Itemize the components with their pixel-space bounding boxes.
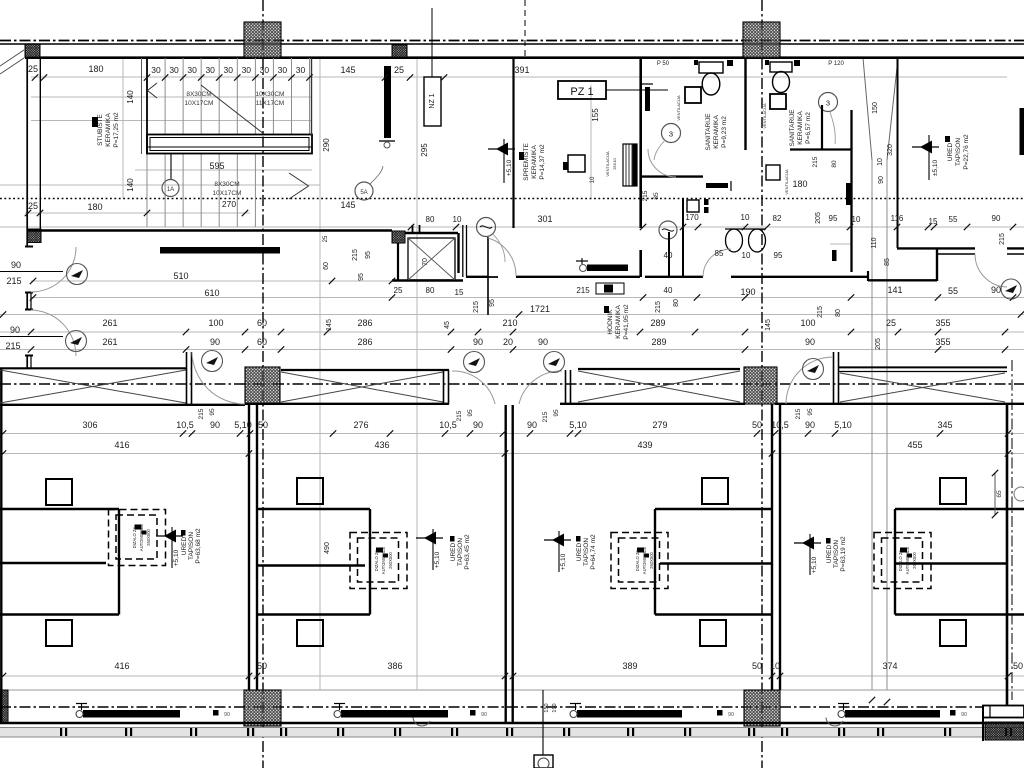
room label unit3 <box>576 536 581 542</box>
svg-text:50: 50 <box>257 661 267 671</box>
svg-text:90: 90 <box>805 420 815 430</box>
svg-text:180: 180 <box>87 202 102 212</box>
window band 2 <box>281 369 449 371</box>
svg-text:301: 301 <box>537 214 552 224</box>
svg-text:215: 215 <box>817 306 824 318</box>
svg-text:150: 150 <box>544 703 550 712</box>
car platform unit1 <box>109 510 166 566</box>
svg-text:90: 90 <box>473 420 483 430</box>
wc1 wall vent marks <box>727 60 733 66</box>
right edge radiator <box>1020 108 1024 155</box>
svg-text:AUTOMOBILE: AUTOMOBILE <box>642 547 647 575</box>
svg-text:374: 374 <box>882 661 897 671</box>
right vertical dim <box>994 473 996 515</box>
wc2 marker 3 <box>819 93 838 112</box>
svg-text:215: 215 <box>812 156 819 167</box>
stair dims <box>126 90 600 209</box>
svg-text:SANITARIJE: SANITARIJE <box>705 113 712 151</box>
dimension row top <box>28 61 844 75</box>
top right wall x898 <box>897 58 899 248</box>
svg-text:90: 90 <box>538 337 548 347</box>
right wall stubs <box>1007 508 1024 510</box>
svg-text:10X17CM: 10X17CM <box>185 100 214 107</box>
bottom section marker <box>542 690 544 755</box>
svg-text:215: 215 <box>576 286 590 295</box>
svg-text:80: 80 <box>835 309 842 317</box>
svg-text:286: 286 <box>357 318 372 328</box>
bottom window unit2 <box>341 710 448 718</box>
svg-text:95: 95 <box>774 251 783 260</box>
svg-text:276: 276 <box>353 420 368 430</box>
svg-text:205: 205 <box>875 338 882 350</box>
svg-text:P=63,19 m2: P=63,19 m2 <box>840 536 847 572</box>
svg-text:386: 386 <box>387 661 402 671</box>
stair side wall right <box>311 58 313 135</box>
bottom door mark unit3 <box>717 710 723 716</box>
stairs boundary <box>146 58 148 154</box>
svg-text:95: 95 <box>553 409 560 417</box>
wc3 door arc <box>703 249 731 277</box>
desk 7 <box>700 620 726 646</box>
column top A <box>244 22 281 58</box>
corridor top wall <box>27 229 392 232</box>
stairs direction lines <box>148 83 158 98</box>
svg-text:90: 90 <box>473 337 483 347</box>
svg-text:145: 145 <box>340 65 355 75</box>
corridor east walls <box>867 271 869 281</box>
corridor east door marker 4 <box>1001 279 1021 299</box>
column small elevator <box>392 231 405 243</box>
wc3 door leaf <box>668 232 670 277</box>
svg-text:50: 50 <box>752 661 762 671</box>
dim row 322 <box>102 318 950 328</box>
svg-text:10: 10 <box>770 661 780 671</box>
column small left-mid <box>27 229 41 243</box>
stairs landing bar <box>147 135 312 154</box>
dimension ticks <box>0 74 1024 679</box>
svg-text:215: 215 <box>542 411 549 422</box>
svg-text:145: 145 <box>765 319 772 331</box>
corner leader top-left <box>0 50 24 74</box>
wc2 sink <box>770 94 786 109</box>
stairs treads upper <box>147 58 310 227</box>
svg-text:90: 90 <box>527 420 537 430</box>
NZ 1 riser line <box>431 8 433 77</box>
svg-text:40: 40 <box>664 251 673 260</box>
svg-text:30: 30 <box>205 65 215 75</box>
svg-text:289: 289 <box>651 337 666 347</box>
svg-text:+5,10: +5,10 <box>173 549 180 566</box>
svg-text:5A: 5A <box>360 190 367 196</box>
svg-text:261: 261 <box>102 337 117 347</box>
bottom window unit1 <box>83 710 180 718</box>
svg-text:439: 439 <box>637 440 652 450</box>
dimension row 205 <box>28 200 1006 245</box>
svg-text:25: 25 <box>394 286 403 295</box>
svg-text:180: 180 <box>88 64 103 74</box>
wc3 toilet pair <box>726 229 743 252</box>
wall x640 <box>639 58 642 228</box>
svg-text:50: 50 <box>258 420 268 430</box>
svg-text:55: 55 <box>949 215 958 224</box>
stair side line left <box>141 58 143 154</box>
svg-text:AUTOMOBILE: AUTOMOBILE <box>139 524 144 552</box>
svg-text:45: 45 <box>444 321 451 329</box>
svg-text:95: 95 <box>467 409 474 417</box>
svg-text:URED: URED <box>181 536 188 555</box>
bottom exterior wall line <box>0 722 1024 725</box>
black riser bar <box>384 66 391 138</box>
svg-text:391: 391 <box>514 65 529 75</box>
svg-text:90: 90 <box>992 214 1001 223</box>
svg-text:145: 145 <box>340 200 355 210</box>
svg-text:289: 289 <box>650 318 665 328</box>
laundry box <box>766 165 780 180</box>
svg-text:P=64,74 m2: P=64,74 m2 <box>590 534 597 570</box>
corridor door leaf <box>487 237 489 315</box>
svg-text:DIZALO ZA: DIZALO ZA <box>132 526 137 548</box>
svg-text:30: 30 <box>169 65 179 75</box>
svg-text:SPREMIŠTE: SPREMIŠTE <box>521 143 530 181</box>
axis line bottom horizontal <box>0 706 1024 708</box>
room label unit2 <box>450 536 455 542</box>
svg-text:P=14,37 m2: P=14,37 m2 <box>539 144 546 180</box>
elevator entry ticks <box>412 225 414 233</box>
svg-text:110: 110 <box>871 237 878 248</box>
svg-text:389: 389 <box>622 661 637 671</box>
svg-text:P=41,95 m2: P=41,95 m2 <box>623 304 630 340</box>
double doors middle <box>452 371 495 404</box>
bottom right ramp <box>983 706 1024 718</box>
spremiste level flag <box>496 143 508 156</box>
svg-text:290: 290 <box>322 138 331 152</box>
svg-text:260X500: 260X500 <box>146 528 151 545</box>
axis line middle horizontal <box>0 383 1024 385</box>
svg-text:AUTOMOBILE: AUTOMOBILE <box>381 547 386 575</box>
vestibule unit4 <box>895 508 1007 510</box>
svg-text:25X10: 25X10 <box>612 157 617 169</box>
wall x513 <box>512 58 514 228</box>
svg-text:170: 170 <box>685 213 699 222</box>
stubiste label <box>92 117 98 127</box>
bottom window unit3 <box>577 710 682 718</box>
corridor radiator bar short <box>587 265 628 272</box>
vestibule unit2 <box>258 508 370 510</box>
svg-text:TAPISON: TAPISON <box>188 532 195 560</box>
svg-text:25: 25 <box>394 65 404 75</box>
bottom door mark unit1 <box>213 710 219 716</box>
svg-text:TAPISON: TAPISON <box>583 538 590 566</box>
svg-text:610: 610 <box>204 288 219 298</box>
svg-text:90: 90 <box>805 337 815 347</box>
wc1 marker 3 <box>662 124 681 143</box>
wc3 wall west <box>682 198 684 277</box>
elevator car <box>408 238 455 280</box>
stair marker circle 1A <box>170 154 172 180</box>
svg-text:50: 50 <box>752 420 762 430</box>
desk 3 <box>702 478 728 504</box>
car platform unit4 <box>874 533 931 589</box>
window sill arc unit4 <box>826 718 843 726</box>
svg-text:70: 70 <box>422 258 429 266</box>
axis line top horizontal <box>0 40 1024 42</box>
svg-text:URED: URED <box>450 542 457 561</box>
svg-text:595: 595 <box>209 161 224 171</box>
left door arc 1 <box>31 247 76 292</box>
PZ 1 leader <box>606 89 668 91</box>
wc3 south wall segments <box>645 276 703 278</box>
svg-text:1A: 1A <box>167 187 174 193</box>
flue shaft lines <box>863 58 898 705</box>
svg-text:P=22,76 m2: P=22,76 m2 <box>963 134 970 170</box>
stair marker circle 5A <box>355 182 373 200</box>
desk 4 <box>940 478 966 504</box>
svg-text:+5,10: +5,10 <box>506 159 513 176</box>
svg-text:25: 25 <box>886 318 896 328</box>
svg-text:155: 155 <box>591 108 600 122</box>
svg-text:20: 20 <box>503 337 513 347</box>
svg-text:345: 345 <box>937 420 952 430</box>
corridor radiator bar long <box>160 247 280 254</box>
svg-text:416: 416 <box>114 440 129 450</box>
svg-text:1721: 1721 <box>530 304 550 314</box>
svg-text:KERAMIKA: KERAMIKA <box>797 111 804 145</box>
svg-text:455: 455 <box>907 440 922 450</box>
PZ 1 box <box>558 81 606 99</box>
svg-text:80: 80 <box>426 286 435 295</box>
svg-text:3: 3 <box>669 130 673 139</box>
svg-text:5,10: 5,10 <box>569 420 587 430</box>
wc1 toilet <box>699 62 723 73</box>
svg-text:80: 80 <box>426 215 435 224</box>
svg-text:295: 295 <box>420 143 429 157</box>
svg-text:60: 60 <box>257 318 267 328</box>
desk 1 <box>46 479 72 505</box>
svg-text:306: 306 <box>82 420 97 430</box>
window sill arc unit2 <box>413 718 430 726</box>
column small top-left <box>25 44 40 58</box>
dim row 341 <box>102 337 950 350</box>
svg-text:10X30CM: 10X30CM <box>256 91 285 98</box>
svg-text:3: 3 <box>826 99 830 108</box>
column mid A <box>245 367 280 404</box>
svg-text:140: 140 <box>126 178 135 192</box>
right exterior wall <box>1006 405 1009 707</box>
svg-text:30: 30 <box>242 65 252 75</box>
svg-text:116: 116 <box>891 214 904 223</box>
svg-text:85: 85 <box>715 249 724 258</box>
left door marker 2 <box>66 331 87 352</box>
corridor wall right of elevator <box>462 225 464 277</box>
wc1 south wall <box>640 175 703 177</box>
svg-text:VENTILACIJA: VENTILACIJA <box>784 169 789 195</box>
svg-text:30: 30 <box>296 65 306 75</box>
svg-text:60: 60 <box>323 262 330 270</box>
svg-text:80: 80 <box>831 160 838 168</box>
ured top right label <box>920 141 932 154</box>
svg-text:TAPISON: TAPISON <box>833 540 840 568</box>
window band 3 <box>578 368 740 370</box>
section cut dotted line <box>0 198 1024 200</box>
svg-text:30: 30 <box>151 65 161 75</box>
svg-text:AUTOMOBILE: AUTOMOBILE <box>905 547 910 575</box>
svg-text:260X500: 260X500 <box>388 551 393 568</box>
lower block left wall <box>0 368 2 723</box>
svg-text:8X30CM: 8X30CM <box>186 91 211 98</box>
desk 5 <box>46 620 72 646</box>
bottom door mark unit4 <box>950 710 956 716</box>
sidewalk band <box>0 728 1024 738</box>
svg-text:10: 10 <box>453 215 462 224</box>
svg-text:215: 215 <box>642 190 649 201</box>
svg-text:5,10: 5,10 <box>834 420 852 430</box>
svg-text:55: 55 <box>948 286 958 296</box>
svg-text:205: 205 <box>815 212 822 224</box>
column top B <box>743 22 780 58</box>
svg-text:TAPISON: TAPISON <box>955 138 962 166</box>
dim row 668 <box>114 661 1023 671</box>
wc2 radiator low <box>832 250 837 261</box>
svg-text:90: 90 <box>224 712 230 718</box>
wc3 marker circle <box>659 221 677 239</box>
bottom window unit4 <box>845 710 940 718</box>
sidewalk ticks <box>60 728 1012 736</box>
svg-text:85: 85 <box>653 192 660 200</box>
svg-text:510: 510 <box>173 271 188 281</box>
svg-text:VENTILACIJA: VENTILACIJA <box>676 95 681 121</box>
axis line vertical A <box>262 0 264 768</box>
svg-text:KERAMIKA: KERAMIKA <box>713 115 720 149</box>
column small top-mid <box>392 45 407 58</box>
door arc band1 <box>192 352 245 404</box>
svg-text:URED: URED <box>826 544 833 563</box>
wc1 door arc <box>648 149 676 177</box>
svg-text:140: 140 <box>126 90 135 104</box>
car platform unit3 <box>611 533 668 589</box>
svg-text:VENTILACIJA: VENTILACIJA <box>605 151 610 177</box>
svg-text:SANITARIJE: SANITARIJE <box>789 109 796 147</box>
svg-text:10: 10 <box>590 176 596 183</box>
svg-text:25: 25 <box>28 64 38 74</box>
svg-text:URED: URED <box>576 542 583 561</box>
svg-text:+5,10: +5,10 <box>811 556 818 573</box>
svg-text:40: 40 <box>664 286 673 295</box>
svg-text:210: 210 <box>502 318 517 328</box>
svg-text:215: 215 <box>795 408 802 419</box>
column bottom A <box>244 690 281 726</box>
svg-text:P 50: P 50 <box>657 61 670 67</box>
corridor east door arc <box>975 254 1007 287</box>
left door arc 2 <box>31 310 76 356</box>
svg-text:65: 65 <box>996 490 1003 498</box>
wc2 wall vent marks <box>794 60 800 66</box>
svg-text:320: 320 <box>887 144 894 156</box>
svg-text:286: 286 <box>357 337 372 347</box>
level mark unit1 <box>164 530 176 543</box>
svg-text:30: 30 <box>260 65 270 75</box>
svg-text:10,5: 10,5 <box>176 420 194 430</box>
axis line vertical center top stub <box>524 0 526 58</box>
wc2 toilet <box>770 62 792 72</box>
svg-text:355: 355 <box>935 318 950 328</box>
svg-text:85: 85 <box>884 258 891 266</box>
svg-text:95: 95 <box>365 251 372 259</box>
bottom door mark unit2 <box>470 710 476 716</box>
corridor door marker 2 <box>477 218 496 237</box>
separation wall unit3-4 <box>771 404 773 690</box>
svg-text:URED: URED <box>947 142 954 161</box>
door marker band4 <box>803 359 824 380</box>
svg-text:90: 90 <box>991 285 1001 295</box>
svg-text:10,5: 10,5 <box>771 420 789 430</box>
svg-text:8X30CM: 8X30CM <box>214 181 239 188</box>
door jambs band1 <box>186 352 188 405</box>
svg-text:5,10: 5,10 <box>234 420 252 430</box>
left wall door jambs <box>25 247 33 369</box>
window band 4 <box>838 366 1007 368</box>
svg-text:P=63,68 m2: P=63,68 m2 <box>195 528 202 564</box>
svg-text:TAPISON: TAPISON <box>457 538 464 566</box>
svg-text:215: 215 <box>198 408 205 419</box>
svg-text:10: 10 <box>877 158 884 166</box>
svg-text:60: 60 <box>257 337 267 347</box>
vestibule unit3 <box>655 508 772 510</box>
svg-text:P=17,25 m2: P=17,25 m2 <box>113 112 120 148</box>
top exterior wall <box>0 43 1024 45</box>
svg-text:90: 90 <box>728 712 734 718</box>
door arc band4 <box>786 357 833 404</box>
left door marker 1 <box>67 264 88 285</box>
svg-text:+5,10: +5,10 <box>560 553 567 570</box>
wc2 walls <box>821 105 823 149</box>
svg-text:50: 50 <box>1013 661 1023 671</box>
svg-text:KERAMIKA: KERAMIKA <box>105 113 112 147</box>
svg-text:±5,10: ±5,10 <box>932 160 939 177</box>
NZ 1 box <box>424 77 441 126</box>
svg-text:95: 95 <box>489 299 496 307</box>
svg-text:90: 90 <box>961 712 967 718</box>
corridor south wall segment 1 <box>466 276 488 278</box>
svg-text:DIZALO ZA: DIZALO ZA <box>635 549 640 571</box>
svg-text:95: 95 <box>829 214 838 223</box>
svg-text:25: 25 <box>28 201 38 211</box>
svg-text:P=63,45 m2: P=63,45 m2 <box>464 534 471 570</box>
ventilation duct <box>623 144 637 186</box>
column mid B <box>744 367 777 404</box>
svg-text:30: 30 <box>278 65 288 75</box>
svg-text:90: 90 <box>10 325 20 335</box>
svg-text:82: 82 <box>773 214 782 223</box>
svg-text:416: 416 <box>114 661 129 671</box>
door marker band1 <box>202 351 223 372</box>
level mark unit2 <box>424 532 436 545</box>
corridor door arc <box>488 238 516 276</box>
svg-text:PZ 1: PZ 1 <box>570 86 593 98</box>
svg-text:100: 100 <box>800 318 815 328</box>
desk 2 <box>297 478 323 504</box>
svg-text:436: 436 <box>374 440 389 450</box>
svg-text:NZ 1: NZ 1 <box>429 93 436 108</box>
svg-text:90: 90 <box>11 260 21 270</box>
svg-text:260X500: 260X500 <box>649 551 654 568</box>
separation wall unit2-3 <box>505 405 507 723</box>
svg-text:P=9,23 m2: P=9,23 m2 <box>721 116 728 148</box>
spremiste radiator <box>645 87 650 111</box>
svg-text:30: 30 <box>187 65 197 75</box>
svg-text:11X17CM: 11X17CM <box>256 100 284 107</box>
svg-text:10: 10 <box>742 251 751 260</box>
svg-text:215: 215 <box>352 249 359 261</box>
